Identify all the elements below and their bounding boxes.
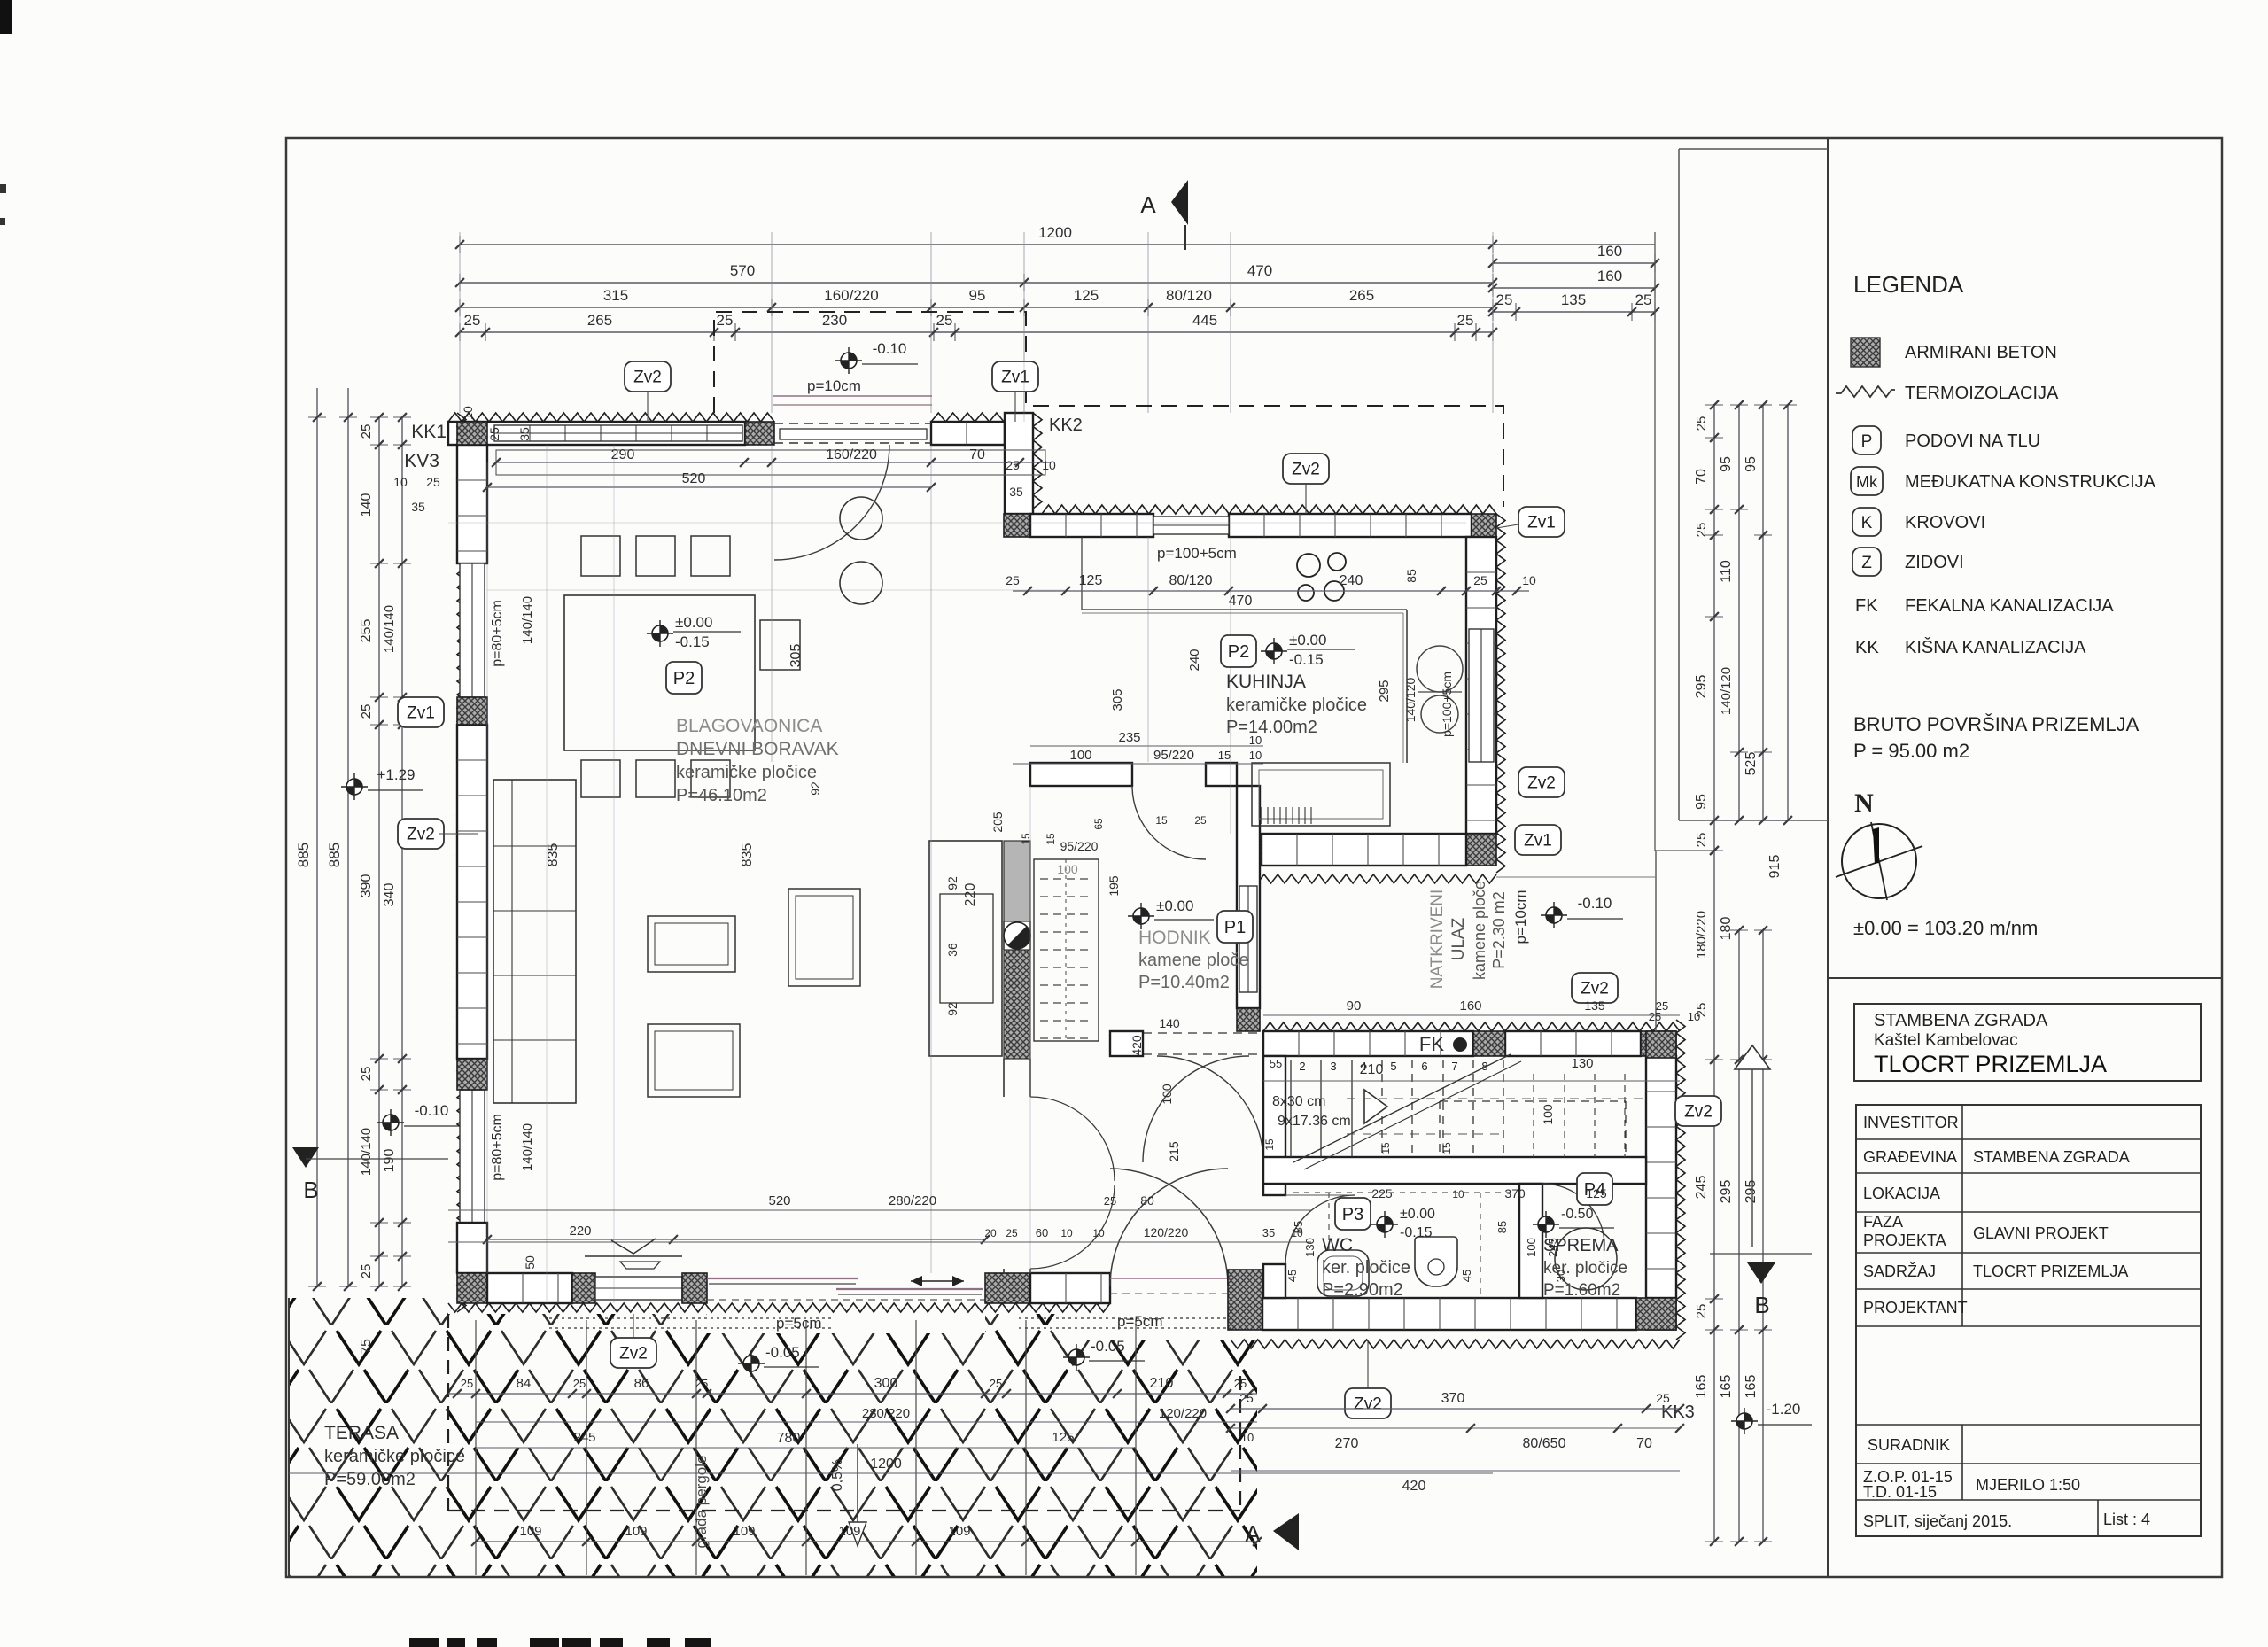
svg-text:List : 4: List : 4 — [2103, 1511, 2150, 1528]
south interior dim rows — [487, 1239, 985, 1240]
svg-text:315: 315 — [603, 287, 628, 304]
svg-text:45: 45 — [1285, 1270, 1299, 1282]
svg-text:885: 885 — [326, 843, 343, 867]
svg-text:25: 25 — [1656, 1391, 1670, 1405]
svg-text:445: 445 — [1192, 312, 1217, 329]
svg-text:295: 295 — [1744, 1180, 1759, 1204]
svg-text:-0.15: -0.15 — [1289, 651, 1324, 668]
legend armirani beton swatch — [1851, 338, 1880, 367]
kitchen east concrete block bottom — [1466, 834, 1496, 866]
svg-text:92: 92 — [945, 1002, 959, 1016]
svg-text:-0.10: -0.10 — [873, 340, 907, 357]
svg-text:K: K — [1861, 514, 1873, 532]
svg-text:TLOCRT PRIZEMLJA: TLOCRT PRIZEMLJA — [1973, 1262, 2128, 1280]
svg-text:125: 125 — [1586, 1186, 1607, 1200]
svg-text:20: 20 — [984, 1227, 997, 1239]
terrace hatched paving — [289, 1298, 1257, 1577]
stairs dashed landing lines — [1347, 1098, 1648, 1099]
svg-text:220: 220 — [963, 883, 978, 907]
sidebar divider line — [1827, 138, 1829, 1577]
svg-text:10: 10 — [393, 475, 408, 489]
svg-text:P=1.60m2: P=1.60m2 — [1543, 1281, 1620, 1300]
plot boundary rectangle top right — [1679, 148, 1828, 150]
south wall concrete block 3 — [682, 1273, 707, 1303]
svg-text:8x30 cm: 8x30 cm — [1272, 1094, 1325, 1109]
title box stambena zgrada — [1854, 1004, 2201, 1081]
svg-text:ZIDOVI: ZIDOVI — [1905, 553, 1964, 572]
svg-text:135: 135 — [1561, 291, 1586, 308]
svg-text:92: 92 — [945, 876, 959, 890]
svg-text:P=2.30 m2: P=2.30 m2 — [1490, 891, 1508, 969]
svg-text:P = 95.00 m2: P = 95.00 m2 — [1853, 740, 1969, 762]
kitchen dim 470 — [1082, 609, 1407, 610]
svg-text:240: 240 — [1187, 649, 1202, 671]
room label P2 living — [666, 662, 702, 694]
svg-text:280/220: 280/220 — [862, 1406, 910, 1421]
svg-text:Zv2: Zv2 — [1684, 1103, 1713, 1122]
svg-text:Zv2: Zv2 — [1354, 1395, 1382, 1414]
legend Z symbol — [1852, 548, 1881, 576]
svg-text:Zv1: Zv1 — [1527, 514, 1556, 532]
svg-text:PODOVI NA TLU: PODOVI NA TLU — [1905, 431, 2040, 451]
svg-text:5: 5 — [1390, 1060, 1396, 1073]
svg-text:-0.05: -0.05 — [765, 1344, 800, 1361]
south wall concrete block 2 — [572, 1273, 595, 1303]
svg-text:885: 885 — [295, 843, 312, 867]
svg-text:95/220: 95/220 — [1153, 748, 1194, 763]
svg-text:235: 235 — [1118, 730, 1140, 745]
svg-text:Zv2: Zv2 — [619, 1345, 648, 1363]
svg-text:295: 295 — [1719, 1180, 1734, 1204]
living level marker — [652, 625, 668, 641]
WC interior dashed partition — [1293, 1192, 1515, 1193]
svg-text:-0.15: -0.15 — [675, 633, 710, 650]
svg-text:120/220: 120/220 — [1144, 1225, 1189, 1239]
svg-text:130: 130 — [1303, 1238, 1317, 1257]
svg-text:ker. pločice: ker. pločice — [1322, 1258, 1410, 1278]
entrance exterior step lines — [773, 395, 932, 397]
svg-text:130: 130 — [1571, 1056, 1593, 1071]
left dimension column verticals — [316, 388, 318, 417]
svg-text:B: B — [1754, 1292, 1769, 1318]
svg-text:370: 370 — [1441, 1391, 1465, 1406]
living-hodnik wall with fireplace flue — [1004, 841, 1030, 921]
kitchen north wall insulation — [1042, 505, 1496, 514]
svg-text:p=80+5cm: p=80+5cm — [490, 1114, 505, 1181]
svg-text:P2: P2 — [673, 669, 695, 688]
tag Zv1 north — [992, 361, 1038, 392]
svg-text:0,5%: 0,5% — [830, 1459, 845, 1491]
svg-text:470: 470 — [1229, 594, 1253, 609]
svg-text:100: 100 — [1160, 1084, 1174, 1105]
svg-text:25: 25 — [1473, 573, 1487, 587]
svg-text:Zv2: Zv2 — [1292, 461, 1320, 479]
sprema boiler circle — [1555, 1228, 1617, 1290]
level marker -0.10 right top — [841, 353, 857, 369]
svg-text:WC: WC — [1322, 1235, 1353, 1255]
dimension row 570/470 — [460, 282, 1493, 284]
legend P symbol — [1852, 426, 1881, 454]
svg-text:210: 210 — [1150, 1376, 1174, 1391]
svg-text:420: 420 — [1130, 1035, 1144, 1056]
sofa along west wall — [493, 780, 576, 1103]
svg-text:295: 295 — [1694, 675, 1709, 699]
svg-text:140/140: 140/140 — [520, 1123, 535, 1171]
sidebar legend/title separator — [1828, 977, 2222, 979]
stairs treads — [1290, 1060, 1292, 1157]
svg-text:210: 210 — [1360, 1062, 1384, 1077]
porch north edge line — [1496, 876, 1656, 878]
svg-text:109: 109 — [948, 1524, 970, 1539]
svg-text:10: 10 — [461, 406, 475, 420]
svg-text:35: 35 — [517, 427, 532, 441]
svg-text:p=100+5cm: p=100+5cm — [1440, 672, 1454, 737]
svg-text:p=100+5cm: p=100+5cm — [1157, 545, 1237, 562]
extension lines from top dims — [459, 232, 461, 413]
svg-text:SURADNIK: SURADNIK — [1868, 1436, 1950, 1454]
svg-text:245: 245 — [1694, 1176, 1709, 1200]
svg-text:P=59.00m2: P=59.00m2 — [324, 1470, 416, 1489]
room label P3 WC — [1335, 1198, 1371, 1230]
terrace level marker -0.05 right — [1068, 1349, 1084, 1365]
kitchen-hodnik wall — [1030, 763, 1132, 786]
armchair — [788, 889, 860, 986]
svg-text:160: 160 — [1597, 268, 1622, 284]
svg-text:835: 835 — [740, 843, 755, 867]
svg-text:109: 109 — [625, 1524, 647, 1539]
svg-text:Zv1: Zv1 — [1524, 832, 1552, 851]
svg-text:165: 165 — [1694, 1375, 1709, 1399]
svg-text:470: 470 — [1247, 262, 1272, 279]
legend termoizolacija symbol — [1836, 386, 1895, 397]
svg-text:25: 25 — [1496, 291, 1513, 308]
south wall concrete block 4 — [985, 1273, 1030, 1303]
svg-text:25: 25 — [1694, 416, 1709, 431]
svg-text:25: 25 — [464, 312, 481, 329]
terrace door 120/220 opening arcs — [1110, 1169, 1228, 1286]
construction extension lines interior — [771, 445, 773, 762]
svg-text:25: 25 — [1006, 458, 1020, 472]
svg-text:160: 160 — [1459, 998, 1481, 1014]
sprema level marker — [1538, 1216, 1554, 1232]
svg-text:LOKACIJA: LOKACIJA — [1863, 1185, 1940, 1202]
svg-text:TERMOIZOLACIJA: TERMOIZOLACIJA — [1905, 384, 2059, 403]
svg-text:10: 10 — [1452, 1188, 1464, 1200]
section arrow up right — [1735, 1045, 1770, 1069]
legend K symbol — [1852, 508, 1881, 536]
svg-text:25: 25 — [359, 1264, 374, 1279]
svg-text:90: 90 — [1347, 998, 1362, 1014]
svg-text:10: 10 — [1042, 458, 1056, 472]
toilet — [1415, 1237, 1457, 1286]
svg-text:P=2.90m2: P=2.90m2 — [1322, 1280, 1403, 1300]
svg-text:25: 25 — [573, 1377, 586, 1390]
level marker -0.10 left — [383, 1115, 399, 1130]
svg-text:BRUTO POVRŠINA PRIZEMLJA: BRUTO POVRŠINA PRIZEMLJA — [1853, 713, 2140, 735]
kitchen columns circles — [840, 497, 882, 540]
svg-text:10: 10 — [1249, 749, 1262, 762]
tag Zv2 porch inner — [1572, 973, 1618, 1003]
kitchen hob circles — [1297, 554, 1320, 577]
title table frame — [1856, 1105, 2201, 1536]
svg-text:85: 85 — [1404, 569, 1418, 583]
svg-text:95/220: 95/220 — [1060, 839, 1099, 853]
svg-text:84: 84 — [517, 1376, 532, 1391]
svg-text:15: 15 — [1379, 1142, 1392, 1154]
svg-text:220: 220 — [569, 1224, 591, 1239]
svg-text:Zv2: Zv2 — [407, 826, 435, 844]
svg-text:T.D. 01-15: T.D. 01-15 — [1863, 1483, 1937, 1501]
svg-text:85: 85 — [1292, 1221, 1305, 1233]
svg-text:10: 10 — [1092, 1227, 1105, 1239]
svg-text:KK1: KK1 — [411, 422, 447, 442]
svg-text:keramičke pločice: keramičke pločice — [324, 1447, 465, 1466]
svg-text:780: 780 — [777, 1431, 801, 1446]
south wall TV window strip — [595, 1277, 682, 1300]
right dimension column upper — [1713, 405, 1715, 851]
svg-text:95: 95 — [969, 287, 986, 304]
svg-text:25: 25 — [936, 312, 953, 329]
svg-text:GRAĐEVINA: GRAĐEVINA — [1863, 1148, 1957, 1166]
svg-text:80/120: 80/120 — [1166, 287, 1212, 304]
WC door arc — [1285, 1195, 1355, 1264]
dishwasher hatch — [1261, 807, 1262, 824]
pergola dashed outline — [448, 1510, 1240, 1511]
svg-text:KIŠNA KANALIZACIJA: KIŠNA KANALIZACIJA — [1905, 637, 2086, 657]
tag Zv1 east lower — [1515, 825, 1561, 855]
svg-text:Zv1: Zv1 — [407, 704, 435, 723]
interior dim 290 row — [496, 462, 1051, 463]
svg-text:109: 109 — [519, 1524, 541, 1539]
north wall band left segment — [448, 422, 745, 445]
svg-text:120/220: 120/220 — [1159, 1406, 1207, 1421]
svg-text:-0.15: -0.15 — [1400, 1225, 1433, 1240]
living-hodnik opening door arcs — [1030, 1097, 1115, 1181]
svg-text:25: 25 — [717, 312, 734, 329]
TV cabinet — [648, 1024, 740, 1097]
svg-text:HODNIK: HODNIK — [1138, 928, 1211, 948]
svg-text:p=80+5cm: p=80+5cm — [490, 600, 505, 667]
hodnik entrance door opening — [1143, 1032, 1263, 1034]
sliding door arrow — [911, 1280, 964, 1282]
svg-text:25: 25 — [426, 475, 440, 489]
kitchen south wall band — [1262, 834, 1466, 866]
kitchen north window 80/120 — [1153, 517, 1229, 534]
kitchen door 95/220 arc — [1132, 786, 1206, 859]
svg-text:25: 25 — [359, 1067, 374, 1082]
svg-text:35: 35 — [411, 500, 425, 514]
svg-text:140: 140 — [1159, 1016, 1180, 1030]
svg-text:25: 25 — [1656, 999, 1668, 1013]
svg-text:10: 10 — [1688, 1010, 1700, 1023]
svg-text:305: 305 — [1110, 688, 1125, 711]
svg-text:915: 915 — [1767, 855, 1783, 879]
svg-text:420: 420 — [1402, 1479, 1426, 1494]
svg-text:±0.00: ±0.00 — [1400, 1207, 1435, 1222]
svg-text:125: 125 — [1052, 1430, 1074, 1445]
stairs block north wall insulation — [1263, 1022, 1680, 1031]
svg-text:kamene ploče: kamene ploče — [1138, 951, 1249, 970]
stairs diagonal line — [1293, 1054, 1511, 1162]
porch east open edge line — [1655, 851, 1657, 1031]
svg-text:35: 35 — [1009, 485, 1023, 499]
svg-text:25: 25 — [1006, 1227, 1018, 1239]
tag Zv2 west — [398, 819, 444, 849]
svg-text:-0.10: -0.10 — [1578, 895, 1612, 912]
svg-text:-0.05: -0.05 — [1091, 1338, 1125, 1355]
svg-text:160/220: 160/220 — [824, 287, 878, 304]
svg-text:25: 25 — [359, 704, 374, 719]
svg-text:SADRŽAJ: SADRŽAJ — [1863, 1262, 1936, 1280]
svg-text:KROVOVI: KROVOVI — [1905, 513, 1985, 532]
svg-text:KK3: KK3 — [1661, 1402, 1695, 1422]
svg-text:P=46.10m2: P=46.10m2 — [676, 786, 767, 805]
svg-text:109: 109 — [733, 1524, 755, 1539]
svg-text:109: 109 — [838, 1524, 860, 1539]
svg-text:kamene ploče: kamene ploče — [1471, 881, 1488, 980]
svg-text:±0.00: ±0.00 — [675, 614, 712, 631]
svg-text:60: 60 — [1036, 1226, 1048, 1239]
svg-text:-1.20: -1.20 — [1767, 1401, 1801, 1418]
dotted strip under sliding door — [549, 1317, 833, 1319]
svg-text:525: 525 — [1744, 752, 1759, 776]
svg-text:265: 265 — [1349, 287, 1374, 304]
svg-text:SPLIT, siječanj 2015.: SPLIT, siječanj 2015. — [1863, 1512, 2012, 1530]
svg-text:1200: 1200 — [870, 1457, 902, 1472]
hodnik-stairs wall — [1263, 1056, 1285, 1195]
svg-text:25: 25 — [1104, 1194, 1116, 1208]
svg-text:370: 370 — [1504, 1186, 1526, 1200]
svg-text:25: 25 — [1635, 291, 1652, 308]
dims above stairs block — [1263, 1014, 1680, 1016]
svg-text:140: 140 — [359, 493, 374, 517]
west wall window 140/140 lower — [460, 1090, 485, 1223]
svg-text:INVESTITOR: INVESTITOR — [1863, 1114, 1959, 1131]
svg-text:80: 80 — [1140, 1193, 1154, 1208]
svg-text:P2: P2 — [1228, 642, 1249, 662]
svg-text:10: 10 — [1241, 1431, 1254, 1444]
svg-text:270: 270 — [1335, 1436, 1359, 1451]
svg-text:TERASA: TERASA — [324, 1423, 399, 1443]
svg-text:ULAZ: ULAZ — [1449, 917, 1468, 960]
north wall window strip 290 — [494, 425, 742, 441]
svg-text:STAMBENA ZGRADA: STAMBENA ZGRADA — [1973, 1148, 2130, 1166]
svg-text:p=10cm: p=10cm — [1512, 890, 1529, 944]
svg-text:140/140: 140/140 — [359, 1128, 374, 1176]
svg-text:10: 10 — [1060, 1227, 1073, 1239]
svg-text:50: 50 — [523, 1255, 537, 1270]
svg-text:+1.29: +1.29 — [377, 766, 415, 783]
svg-text:215: 215 — [1167, 1141, 1181, 1162]
west wall concrete block mid — [457, 697, 487, 725]
svg-text:6: 6 — [1421, 1060, 1427, 1073]
svg-text:300: 300 — [874, 1376, 898, 1391]
svg-text:180: 180 — [1719, 917, 1734, 941]
svg-text:Kaštel Kambelovac: Kaštel Kambelovac — [1874, 1031, 2018, 1050]
svg-text:BLAGOVAONICA: BLAGOVAONICA — [676, 716, 822, 736]
svg-text:36: 36 — [945, 943, 959, 957]
tag Zv2 terrace — [610, 1338, 656, 1368]
kitchen level marker — [1266, 643, 1282, 659]
room label P4 sprema — [1577, 1173, 1612, 1205]
TV symbol on south wall — [585, 1255, 682, 1257]
svg-text:80/650: 80/650 — [1523, 1436, 1566, 1451]
svg-text:B: B — [303, 1177, 318, 1203]
svg-text:-0.50: -0.50 — [1561, 1207, 1594, 1222]
svg-text:70: 70 — [969, 447, 985, 462]
svg-text:2: 2 — [1299, 1060, 1305, 1073]
svg-text:LEGENDA: LEGENDA — [1853, 271, 1964, 298]
west wall corner blocks — [457, 422, 487, 445]
svg-text:10: 10 — [1522, 573, 1536, 587]
dining chairs bottom row — [581, 760, 620, 797]
fireplace body — [929, 841, 1002, 1056]
svg-text:keramičke pločice: keramičke pločice — [1226, 695, 1367, 715]
svg-text:305: 305 — [788, 644, 804, 668]
svg-text:280/220: 280/220 — [889, 1193, 936, 1208]
svg-text:240: 240 — [1340, 573, 1363, 588]
svg-text:520: 520 — [768, 1193, 790, 1208]
svg-text:Zv2: Zv2 — [1581, 980, 1609, 998]
north compass circle — [1842, 824, 1916, 898]
svg-text:255: 255 — [359, 619, 374, 643]
level marker +1.29 — [346, 779, 362, 795]
svg-text:180/220: 180/220 — [1694, 911, 1709, 959]
west wall insulation zigzag — [457, 413, 466, 1312]
svg-text:140/120: 140/120 — [1403, 677, 1417, 722]
svg-text:±0.00: ±0.00 — [1156, 897, 1193, 914]
svg-text:15: 15 — [1020, 833, 1032, 845]
svg-text:570: 570 — [730, 262, 755, 279]
svg-text:FEKALNA KANALIZACIJA: FEKALNA KANALIZACIJA — [1905, 596, 2114, 616]
svg-text:190: 190 — [382, 1149, 397, 1173]
svg-text:30: 30 — [1554, 1270, 1567, 1282]
west wall concrete block lower — [457, 1059, 487, 1090]
svg-text:±0.00 = 103.20 m/nm: ±0.00 = 103.20 m/nm — [1853, 917, 2038, 939]
svg-text:35: 35 — [1262, 1226, 1275, 1239]
porch west block — [1237, 1008, 1260, 1031]
stairs block east corner blocks — [1646, 1031, 1676, 1058]
svg-text:9x17.36 cm: 9x17.36 cm — [1278, 1114, 1351, 1129]
svg-text:KK: KK — [1855, 638, 1879, 657]
svg-text:100: 100 — [1069, 748, 1091, 763]
svg-text:140/120: 140/120 — [1719, 667, 1734, 715]
svg-text:100: 100 — [1057, 862, 1078, 876]
kitchen sink circles — [1417, 646, 1463, 692]
entrance door opening dashed lintel — [774, 423, 931, 424]
svg-text:FK: FK — [1855, 596, 1878, 616]
svg-text:NATKRIVENI: NATKRIVENI — [1428, 890, 1447, 990]
svg-text:25: 25 — [1234, 1377, 1247, 1390]
stairs block north wall band — [1263, 1031, 1473, 1056]
jog concrete block — [1004, 514, 1030, 537]
svg-text:25: 25 — [1694, 523, 1709, 538]
right dimension column lower — [1713, 851, 1715, 1542]
terrace boundary bottom — [289, 1576, 1257, 1578]
svg-text:55: 55 — [1270, 1057, 1282, 1070]
svg-text:135: 135 — [1584, 998, 1605, 1013]
dimension rows 160/160/135 top right — [1493, 262, 1655, 264]
svg-text:245: 245 — [1546, 1238, 1559, 1257]
title table column divider — [1961, 1105, 1963, 1326]
washbasin — [1317, 1250, 1369, 1296]
svg-text:65: 65 — [1092, 818, 1105, 830]
svg-text:15: 15 — [1218, 749, 1231, 762]
south wall sliding door 280/220 — [707, 1278, 858, 1279]
top wall stub left of entrance door — [1110, 1031, 1143, 1056]
tag Zv2 south of sprema — [1345, 1388, 1391, 1418]
kitchen east window 140/120 — [1469, 629, 1494, 762]
